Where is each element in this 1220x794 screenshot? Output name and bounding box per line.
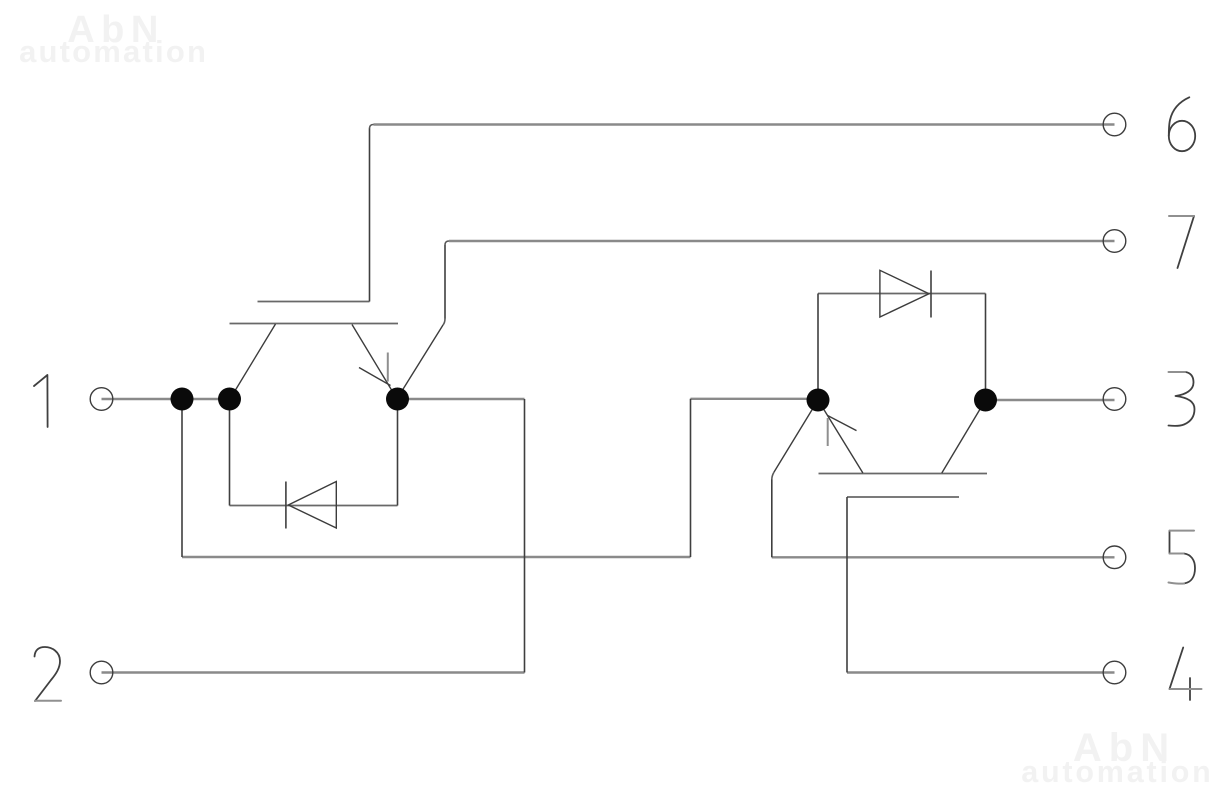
svg-text:automation: automation — [19, 34, 208, 69]
svg-text:automation: automation — [1021, 755, 1213, 789]
